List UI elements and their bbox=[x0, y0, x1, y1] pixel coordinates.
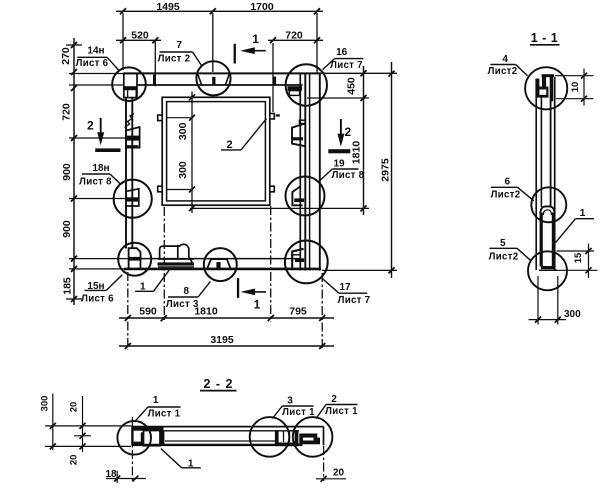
svg-text:300: 300 bbox=[564, 309, 581, 320]
svg-text:Лист 1: Лист 1 bbox=[325, 406, 358, 417]
svg-text:Лист 1: Лист 1 bbox=[148, 409, 181, 420]
svg-text:1: 1 bbox=[254, 298, 261, 312]
svg-text:10: 10 bbox=[570, 82, 581, 93]
svg-text:15н: 15н bbox=[87, 281, 104, 292]
svg-text:1495: 1495 bbox=[156, 1, 180, 13]
svg-text:720: 720 bbox=[61, 103, 73, 121]
svg-text:8: 8 bbox=[184, 286, 190, 297]
svg-text:1810: 1810 bbox=[351, 141, 363, 165]
svg-text:1: 1 bbox=[188, 459, 194, 470]
svg-text:15: 15 bbox=[573, 252, 584, 263]
svg-text:18н: 18н bbox=[92, 163, 109, 174]
svg-text:1700: 1700 bbox=[250, 1, 274, 13]
svg-text:300: 300 bbox=[40, 396, 51, 412]
svg-text:4: 4 bbox=[502, 54, 508, 65]
svg-text:270: 270 bbox=[60, 47, 72, 65]
svg-text:2975: 2975 bbox=[380, 158, 392, 182]
svg-text:18: 18 bbox=[105, 469, 117, 480]
svg-text:Лист 3: Лист 3 bbox=[166, 299, 199, 310]
svg-text:1: 1 bbox=[153, 395, 159, 406]
svg-text:1: 1 bbox=[580, 208, 586, 219]
svg-text:17: 17 bbox=[339, 282, 351, 293]
svg-text:300: 300 bbox=[177, 161, 189, 179]
svg-text:300: 300 bbox=[177, 122, 189, 140]
svg-text:720: 720 bbox=[285, 30, 303, 42]
svg-text:20: 20 bbox=[69, 455, 80, 466]
svg-text:Лист2: Лист2 bbox=[491, 190, 521, 201]
svg-text:Лист2: Лист2 bbox=[489, 252, 519, 263]
svg-text:185: 185 bbox=[62, 277, 74, 295]
svg-text:520: 520 bbox=[131, 30, 149, 42]
svg-text:1 - 1: 1 - 1 bbox=[531, 31, 559, 45]
svg-text:2: 2 bbox=[344, 125, 351, 139]
svg-text:590: 590 bbox=[139, 306, 157, 318]
svg-text:Лист 8: Лист 8 bbox=[332, 170, 365, 181]
svg-text:Лист 6: Лист 6 bbox=[76, 58, 109, 69]
svg-text:Лист 7: Лист 7 bbox=[338, 295, 371, 306]
svg-text:16: 16 bbox=[336, 47, 348, 58]
svg-text:2: 2 bbox=[226, 139, 232, 151]
svg-text:1: 1 bbox=[252, 32, 259, 46]
svg-text:795: 795 bbox=[289, 306, 307, 318]
svg-text:Лист 7: Лист 7 bbox=[330, 60, 363, 71]
svg-text:Лист 6: Лист 6 bbox=[81, 293, 114, 304]
svg-text:2: 2 bbox=[87, 119, 94, 133]
svg-text:2: 2 bbox=[331, 394, 337, 405]
svg-text:7: 7 bbox=[176, 40, 182, 51]
svg-text:Лист 1: Лист 1 bbox=[282, 407, 315, 418]
svg-text:20: 20 bbox=[333, 468, 345, 479]
svg-text:6: 6 bbox=[505, 177, 511, 188]
svg-text:3: 3 bbox=[287, 395, 293, 406]
svg-text:1: 1 bbox=[140, 282, 146, 293]
svg-text:2 - 2: 2 - 2 bbox=[203, 377, 233, 391]
svg-text:14н: 14н bbox=[87, 45, 104, 56]
svg-text:3195: 3195 bbox=[210, 334, 234, 346]
svg-text:Лист2: Лист2 bbox=[488, 66, 518, 77]
svg-text:20: 20 bbox=[69, 402, 80, 413]
svg-text:Лист 8: Лист 8 bbox=[79, 177, 112, 188]
svg-text:450: 450 bbox=[346, 77, 358, 95]
svg-text:Лист 2: Лист 2 bbox=[158, 54, 191, 65]
svg-text:5: 5 bbox=[500, 238, 506, 249]
svg-text:900: 900 bbox=[61, 163, 73, 181]
svg-text:900: 900 bbox=[61, 220, 73, 238]
svg-text:19: 19 bbox=[333, 158, 345, 169]
